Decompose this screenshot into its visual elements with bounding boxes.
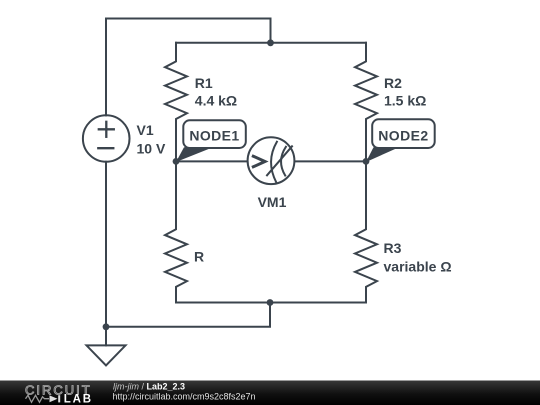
label V1 value — [137, 75, 452, 275]
svg-text:1.5 kΩ: 1.5 kΩ — [384, 93, 426, 109]
resistor R3 — [355, 161, 377, 302]
node junction ground — [103, 323, 110, 330]
node NODE2 junction — [363, 158, 370, 165]
svg-text:R2: R2 — [384, 75, 402, 91]
wire top rail — [176, 42, 366, 44]
wire mid-right — [295, 160, 366, 162]
svg-text:R1: R1 — [195, 75, 213, 91]
svg-text:10 V: 10 V — [137, 140, 166, 156]
resistor R2 — [355, 43, 377, 162]
svg-text:LAB: LAB — [64, 393, 93, 405]
svg-text:R3: R3 — [384, 240, 402, 256]
voltmeter VM1 — [248, 137, 295, 184]
footer logo arrow — [50, 395, 58, 402]
node junction bottom — [267, 299, 274, 306]
voltage source V1 — [83, 115, 130, 162]
svg-text:4.4 kΩ: 4.4 kΩ — [195, 93, 237, 109]
svg-text:http://circuitlab.com/cm9s2c8f: http://circuitlab.com/cm9s2c8fs2e7n — [113, 391, 256, 401]
wire mid-left — [176, 160, 247, 162]
resistor R — [165, 161, 187, 302]
wire V1 bottom lead — [105, 162, 107, 327]
wire ground stub — [105, 327, 107, 346]
svg-text:NODE1: NODE1 — [189, 128, 239, 144]
resistor R1 — [165, 43, 187, 162]
svg-text:NODE2: NODE2 — [378, 128, 428, 144]
wire V1 top lead — [106, 19, 271, 116]
node NODE1 junction — [173, 158, 180, 165]
ground — [87, 345, 126, 365]
wire bottom drop — [106, 303, 270, 327]
svg-text:VM1: VM1 — [258, 194, 287, 210]
svg-text:ljm-jim / Lab2_2.3: ljm-jim / Lab2_2.3 — [113, 382, 185, 392]
svg-text:R: R — [194, 248, 204, 264]
footer logo squiggle — [26, 395, 50, 402]
node junction top — [267, 39, 274, 46]
node NODE2 callout — [366, 119, 435, 162]
node NODE1 callout — [176, 120, 246, 162]
svg-text:variable Ω: variable Ω — [384, 259, 452, 275]
wire bottom rail — [176, 302, 366, 304]
svg-text:V1: V1 — [137, 122, 154, 138]
